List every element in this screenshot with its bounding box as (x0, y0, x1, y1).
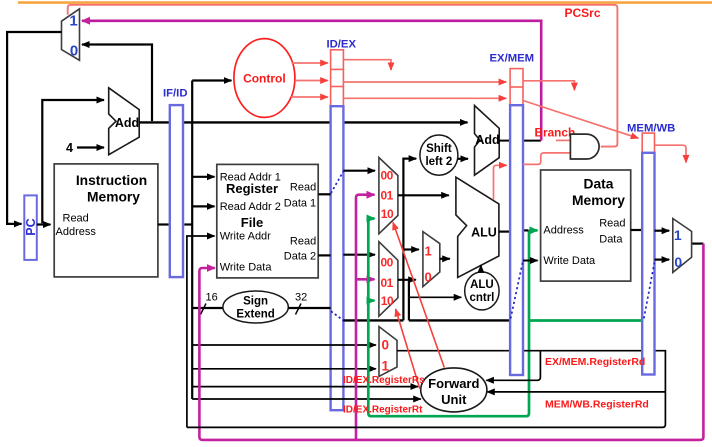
wire: instruction from IM to IF/ID (158, 223, 169, 225)
register file box (217, 164, 318, 278)
wire: immediate vertical up to Shift left 2 (403, 159, 416, 321)
wire: ALU zero flag to EX/MEM (red) (494, 165, 507, 200)
constant 4 and wire to Add (66, 141, 104, 155)
svg-text:Read: Read (63, 213, 89, 225)
wire: MEM/WB.RegisterRd to Forward Unit (487, 391, 665, 393)
wire: branch adder output to EX/MEM (499, 140, 510, 142)
wire: ID/EX.RegisterRt to Forward Unit (192, 398, 421, 400)
wire: PC to Instruction Memory read address (37, 223, 51, 225)
pipeline register MEM/WB (control box) (627, 122, 675, 153)
wire: store data to Data Memory write data (523, 260, 538, 262)
svg-text:Read Addr 2: Read Addr 2 (220, 201, 281, 213)
wire: Control WB signal to ID/EX (292, 62, 328, 64)
wire: ALU result to EX/MEM (499, 231, 510, 233)
bit-width slash 32 (295, 292, 307, 315)
svg-text:1: 1 (69, 13, 77, 30)
wire: instruction to Control (192, 79, 231, 81)
svg-text:Write Data: Write Data (543, 255, 596, 267)
wire: Control M signal to ID/EX (295, 80, 328, 82)
svg-text:16: 16 (206, 292, 218, 304)
wire: Control EX signal to ID/EX (291, 96, 328, 98)
svg-text:File: File (241, 215, 263, 230)
svg-text:0: 0 (674, 254, 682, 270)
wire: MEM/WB read data to final mux input 1 (655, 230, 670, 232)
wire: ALU result out of EX/MEM (523, 229, 529, 231)
wire: EX/MEM WB control stub with down arrow (523, 81, 574, 90)
svg-text:01: 01 (381, 276, 394, 290)
svg-text:Data: Data (584, 177, 614, 192)
svg-text:1: 1 (425, 244, 432, 259)
wire: sign-extended immediate to ID/EX (288, 307, 330, 309)
svg-text:left 2: left 2 (425, 156, 452, 168)
wire: EX/MEM.RegisterRd to Forward Unit (486, 351, 540, 381)
wire: write-back magenta loop (final mux output to Write Data and forwarding 01 inputs) (199, 195, 703, 440)
svg-text:Forward: Forward (428, 376, 479, 391)
wire: ID/EX WB control stub with down arrow (343, 60, 391, 70)
svg-text:PCSrc: PCSrc (565, 6, 601, 20)
pipeline register EX/MEM (data section) (510, 105, 523, 375)
svg-text:32: 32 (295, 292, 307, 304)
pipeline register ID/EX (data section) (331, 106, 344, 410)
wire: mux A output to ALU (398, 194, 449, 196)
wire: mux M1 output to PC (7, 32, 61, 224)
svg-text:Unit: Unit (441, 392, 467, 407)
wire: store data bus to EX/MEM (409, 319, 510, 321)
wire: instruction to Read Addr 2 (192, 205, 214, 207)
svg-text:Branch: Branch (535, 125, 576, 139)
svg-text:ID/EX.RegisterRs: ID/EX.RegisterRs (343, 375, 425, 386)
mux B (forwarding mux, ALU input B) (379, 242, 398, 317)
pipeline register EX/MEM (control boxes) (490, 53, 535, 106)
box Instruction Memory (54, 164, 158, 277)
and gate (branch AND zero) (570, 134, 599, 159)
wire: branch target (EX/MEM out, up and across top to mux 1 input) (82, 21, 541, 141)
box Data Memory (541, 170, 631, 281)
adder Add (PC+4) (109, 88, 140, 155)
wire: ID/EX to forwarding mux B input 00 (343, 254, 375, 256)
svg-text:Write Addr: Write Addr (220, 231, 271, 243)
svg-text:EX/MEM: EX/MEM (490, 53, 535, 65)
svg-text:ID/EX: ID/EX (327, 39, 357, 51)
wire: immediate bus out of ID/EX (343, 319, 403, 321)
forward unit (421, 368, 487, 412)
wire: instr Rs field bus (192, 344, 376, 346)
svg-text:00: 00 (381, 256, 394, 270)
svg-text:Write Data: Write Data (220, 261, 273, 273)
mux ALUSrc (1/0) (423, 232, 440, 287)
register PC (24, 195, 38, 260)
svg-text:MEM/WB.RegisterRd: MEM/WB.RegisterRd (545, 399, 649, 411)
wire: store data down from mux B output (408, 280, 410, 321)
unit Sign Extend (223, 291, 288, 323)
svg-text:Sign: Sign (243, 296, 268, 308)
mux M1 (PC source mux) (62, 9, 80, 61)
unit ALU cntrl (465, 272, 499, 310)
svg-text:Extend: Extend (236, 309, 274, 321)
mux RtRd (destination register 0/1) (379, 327, 397, 377)
mux M2 (write-back select mux) (673, 219, 692, 273)
svg-text:Address: Address (56, 226, 97, 238)
wire: ID/EX to forwarding mux A input 00 (343, 170, 375, 172)
svg-text:Instruction: Instruction (76, 173, 147, 188)
wire: PCSrc feedback (AND gate output to PC-source mux select) (68, 5, 618, 147)
svg-text:10: 10 (381, 294, 394, 308)
wire: MEM/WB ALU result to final mux input 0 (655, 259, 670, 261)
wire: branch control into AND gate (556, 139, 570, 141)
svg-text:Data 1: Data 1 (284, 198, 316, 210)
svg-text:Shift: Shift (426, 143, 452, 155)
svg-text:Memory: Memory (87, 190, 140, 205)
wire: dotted crossover in EX/MEM (store data) (511, 262, 523, 319)
svg-text:Read: Read (290, 182, 316, 194)
svg-text:Data: Data (599, 234, 623, 246)
wire: destination register Rd line to MEM/WB and return (187, 351, 666, 428)
svg-text:Memory: Memory (572, 193, 625, 208)
wire: Shift left 2 to branch adder (458, 158, 468, 160)
wire: DM read data to MEM/WB (631, 229, 642, 231)
wire: Read Data 2 to ID/EX (318, 254, 330, 256)
svg-text:Data 2: Data 2 (284, 251, 316, 263)
svg-text:1: 1 (674, 227, 682, 243)
wire: zero flag from EX/MEM to AND gate (523, 153, 570, 165)
wire: MEM/WB WB control stub with down arrow (655, 145, 687, 162)
wire: dotted crossover in ID/EX (immediate) (331, 311, 344, 321)
svg-text:Add: Add (115, 116, 139, 130)
svg-text:1: 1 (382, 359, 390, 374)
svg-text:Register: Register (226, 181, 278, 196)
svg-text:ID/EX.RegisterRt: ID/EX.RegisterRt (343, 405, 423, 416)
unit Shift left 2 (420, 135, 458, 175)
svg-text:Address: Address (543, 225, 584, 237)
svg-text:Read: Read (290, 236, 316, 248)
wire: instruction 16-bit immediate to Sign Extend (192, 307, 224, 309)
wire: PC value up to Add (42, 100, 104, 223)
wire: forward select to mux A (red diagonal) (393, 222, 444, 367)
svg-text:4: 4 (66, 141, 73, 155)
svg-text:0: 0 (382, 338, 390, 353)
wire: dotted crossover in MEM/WB (ALU result to mux 0) (644, 263, 655, 319)
mux A (forwarding mux, ALU input A) (379, 158, 398, 234)
bit-width slash 16 (201, 292, 218, 315)
top orange border line (18, 1, 712, 4)
svg-text:ALU: ALU (470, 279, 494, 291)
pipeline register ID/EX (control section boxes) (327, 39, 357, 107)
control unit Control (234, 39, 295, 118)
wire: instruction vertical distribution bus (191, 81, 193, 400)
wire: ID/EX.RegisterRs to Forward Unit (192, 386, 418, 388)
wire: instruction to Read Addr 1 (192, 176, 214, 178)
wire: PC+4 to mux 0 input (82, 45, 152, 122)
wire: MEM/WB.RegisterRd return to Write Addr (187, 236, 215, 427)
svg-text:10: 10 (381, 207, 394, 221)
svg-text:cntrl: cntrl (469, 292, 494, 304)
wire: mux B output to ALU-src mux input 0 (398, 279, 416, 281)
wire: Read Data 1 to ID/EX (318, 193, 330, 195)
wire: immediate to ALU-src mux input 1 (403, 248, 418, 250)
alu ALU (456, 177, 499, 277)
wire: ALUSrc mux output to ALU (440, 258, 450, 260)
svg-text:PC: PC (24, 218, 38, 235)
wire: EX/MEM control to MEM/WB (red diagonal) (523, 101, 638, 139)
svg-text:00: 00 (381, 169, 394, 183)
wire: funct field to ALU cntrl (409, 296, 461, 298)
svg-text:EX/MEM.RegisterRd: EX/MEM.RegisterRd (545, 356, 645, 368)
wire: ID/EX control to EX/MEM (WB) (343, 81, 506, 83)
svg-text:0: 0 (70, 43, 78, 60)
wire: forwarded EX/MEM ALU result green net (368, 219, 643, 417)
svg-text:0: 0 (425, 270, 432, 285)
svg-text:ALU: ALU (471, 226, 497, 240)
pipeline register MEM/WB (data section) (642, 153, 654, 375)
svg-text:IF/ID: IF/ID (163, 87, 187, 99)
wire: dotted crossover in ID/EX (read data 1) (331, 172, 343, 194)
wire: ID/EX control to EX/MEM (M) (343, 97, 506, 99)
wire: instr Rt field bus (192, 368, 376, 370)
wire: forward select to mux B (red diagonal) (396, 309, 420, 389)
wire: Add output (PC+4) long line to branch adder (139, 121, 467, 123)
svg-text:Add: Add (475, 133, 499, 147)
svg-text:Read: Read (599, 218, 625, 230)
adder Add (branch target) (475, 106, 500, 176)
svg-text:Control: Control (243, 71, 286, 85)
wire: instruction out of IF/ID to distribution node (184, 223, 192, 225)
pipeline register IF/ID (163, 87, 187, 277)
svg-text:01: 01 (381, 189, 394, 203)
wire: ALU cntrl to ALU (480, 265, 482, 271)
